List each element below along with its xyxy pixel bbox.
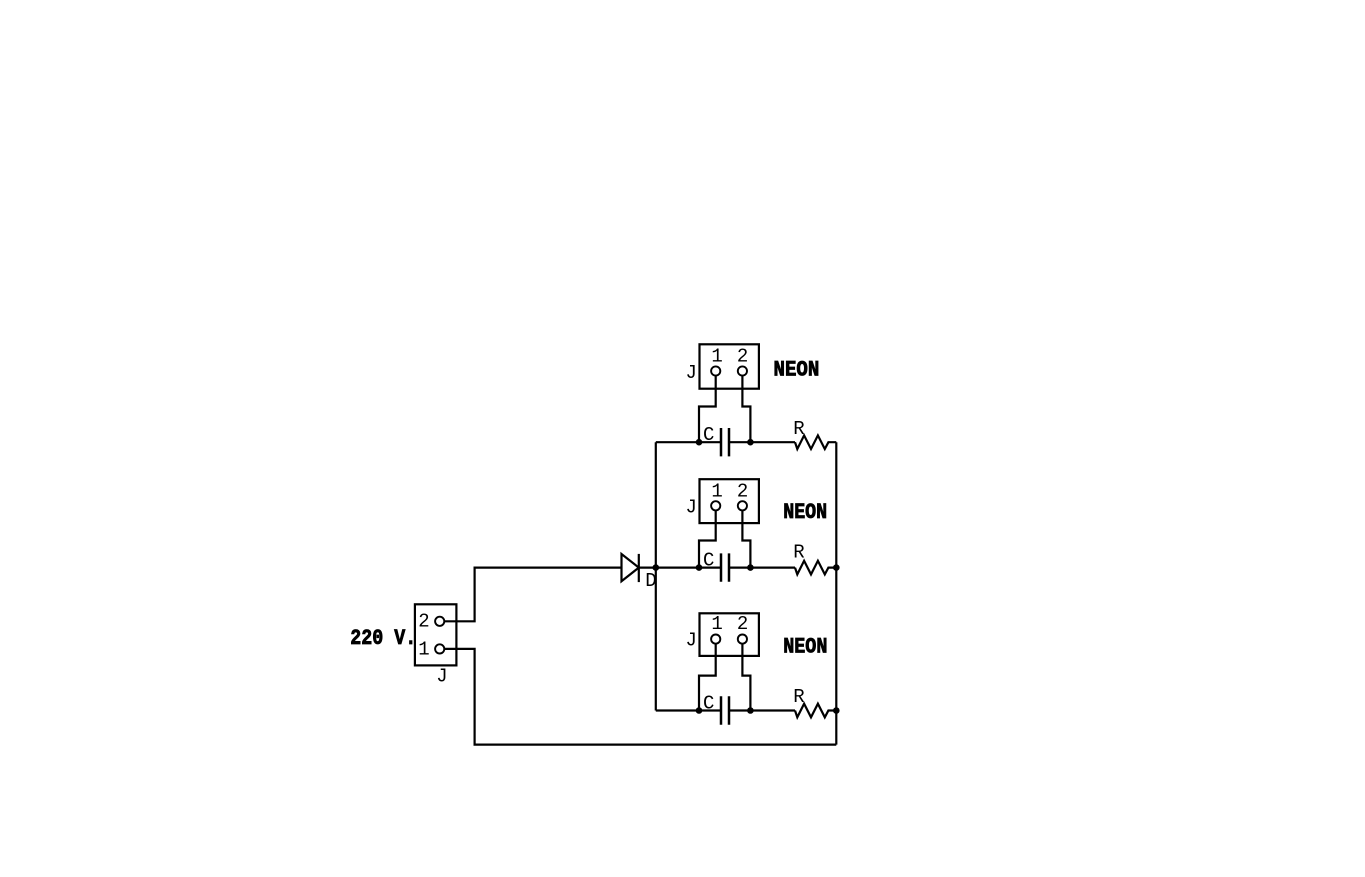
svg-text:1: 1	[418, 639, 429, 661]
svg-text:C: C	[703, 424, 714, 446]
pin 1 circle bottom neon connector	[711, 635, 720, 644]
pin 2 circle middle neon connector	[738, 501, 747, 510]
wire top cap line right	[729, 441, 795, 443]
resistor R (bottom) zigzag	[795, 704, 836, 718]
capacitor C (top) plates	[721, 428, 729, 456]
pin 2 circle bottom neon connector	[738, 635, 747, 644]
wire top cap line left	[656, 441, 721, 443]
capacitor C (bottom) plates	[721, 696, 729, 724]
wire middle cap line left (from diode cathode)	[639, 566, 721, 568]
svg-text:NEON: NEON	[783, 634, 827, 660]
resistor R (middle) zigzag	[795, 561, 836, 575]
junction dot bottom cap right	[747, 707, 754, 714]
svg-text:1: 1	[711, 481, 722, 503]
resistor R (top) zigzag	[795, 435, 836, 449]
junction dot top cap right	[747, 439, 754, 446]
junction dot bottom resistor / right rail	[833, 707, 840, 714]
junction dot middle resistor / right rail	[833, 564, 840, 571]
svg-text:2: 2	[737, 481, 748, 503]
svg-text:J: J	[685, 629, 696, 651]
svg-text:J: J	[685, 497, 696, 519]
pin 2 circle top neon connector	[738, 366, 747, 375]
junction dot middle cap left	[696, 564, 703, 571]
capacitor C (middle) plates	[721, 553, 729, 581]
svg-text:220 V.: 220 V.	[350, 625, 416, 651]
connector J neon lamp (middle) box	[700, 479, 759, 523]
wire bottom cap line right	[729, 709, 795, 711]
wire bottom J pin2 jog to cap line	[742, 639, 750, 710]
svg-text:2: 2	[737, 345, 748, 367]
pin 1 circle middle neon connector	[711, 501, 720, 510]
connector J (220 V. input) box	[415, 604, 457, 665]
wire bottom cap line left	[656, 709, 721, 711]
svg-text:2: 2	[418, 610, 429, 632]
svg-text:J: J	[685, 362, 696, 384]
junction dot at diode cathode / trunk	[653, 564, 660, 571]
wire middle cap line right	[729, 566, 795, 568]
wire left trunk vertical	[655, 442, 657, 710]
pin 1 circle top neon connector	[711, 366, 720, 375]
svg-text:2: 2	[737, 613, 748, 635]
pin 2 circle of connector J (input)	[435, 617, 444, 626]
junction dot middle cap right	[747, 564, 754, 571]
connector J neon lamp (bottom) box	[700, 613, 759, 656]
svg-text:1: 1	[711, 613, 722, 635]
diode D triangle	[622, 554, 639, 581]
wire middle J pin2 jog to cap line	[742, 506, 750, 568]
svg-text:D: D	[645, 570, 656, 592]
svg-text:NEON: NEON	[774, 357, 820, 383]
wire from J1 pin 1 down and along bottom to right rail	[440, 649, 837, 745]
wire middle J pin1 jog to cap line	[699, 506, 716, 568]
wire top J pin1 jog to cap line	[699, 371, 716, 442]
wire bottom J pin1 jog to cap line	[699, 639, 716, 710]
pin 1 circle of connector J (input)	[435, 644, 444, 653]
svg-text:NEON: NEON	[783, 499, 827, 525]
svg-text:R: R	[793, 418, 804, 440]
wire from J1 pin 2 up and right to diode anode	[440, 568, 622, 622]
svg-text:C: C	[703, 693, 714, 715]
svg-text:R: R	[793, 686, 804, 708]
svg-text:1: 1	[711, 345, 722, 367]
wire right vertical rail	[835, 442, 837, 744]
svg-text:R: R	[793, 542, 804, 564]
junction dot bottom cap left	[696, 707, 703, 714]
svg-text:J: J	[436, 666, 447, 688]
svg-text:C: C	[703, 550, 714, 572]
junction dot top cap left	[696, 439, 703, 446]
wire top J pin2 jog to cap line	[742, 371, 750, 442]
diode D cathode bar	[638, 554, 640, 582]
connector J neon lamp (top) box	[700, 344, 759, 388]
